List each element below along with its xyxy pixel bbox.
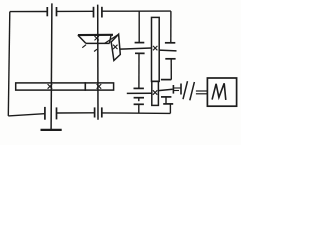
pedestal cap (right) [163,103,173,105]
motor M body [207,78,236,106]
bevel gear wheel on shaft II: top edge [78,34,113,36]
fixed-joint mark x on pinion Z4 [153,90,157,94]
coupling flange tick A [172,85,174,94]
fixed-joint mark x on gear Z1 [48,84,53,89]
bearing support post (upper left) [138,11,140,42]
bearing shaft IV right: top cap [161,79,171,81]
motor shaft stub to motor (upper line) [196,90,208,92]
horizontal shaft III, right stub [159,49,176,52]
spur gear Z1 on shaft I (large, side view bar) [16,83,86,90]
housing bottom line (left segment) [8,114,44,116]
coupling diagonal stroke 1 [183,81,188,99]
bearing shaft2 bottom right tick [101,107,103,117]
bearing shaft2 top right tick [101,7,103,18]
housing bottom line (right segment) [102,112,170,115]
housing left wall [8,12,10,116]
vertical shaft II (bevel gear shaft) [97,5,99,120]
housing bottom line (middle segment) [57,112,94,114]
pedestal post to housing bottom (left) [138,104,140,113]
bearing shaft IV left: top cap [134,87,144,89]
pitch cone dash mark (center) [94,49,97,51]
bearing shaft2 bottom left tick [94,107,96,117]
pedestal cap (left) [134,103,144,105]
bearing shaft1 bottom right tick [56,107,58,119]
coupling double line between flanges (upper) [173,87,181,89]
bearing support post (upper right, housing right wall) [170,11,172,43]
bearing shaft1 top right tick [56,7,58,16]
support between bearings (left column) [138,53,140,88]
support below right bearing [165,97,167,104]
bevel pinion meshing slant line [104,34,118,43]
horizontal shaft III (pinion shaft), left span [120,48,152,49]
bearing shaft1 top left tick [46,7,48,16]
motor shaft IV, left stub [127,92,152,94]
coupling double line between flanges (lower) [173,90,179,92]
support between bearings (right column) [170,59,172,80]
bevel gear wheel: bottom edge [86,42,110,44]
fixed-joint mark x on gear Z3 [153,46,157,50]
fixed-joint mark x on gear Z2 [97,84,102,89]
housing top line (left segment) [10,11,47,13]
bearing shaft IV right: bottom cap [161,96,171,98]
motor label M (hand-drawn italic) [212,83,226,100]
housing top line (middle segment) [57,10,94,12]
pitch cone dash mark (left) [82,45,86,48]
bearing shaft III right: top cap [165,42,175,44]
bearing shaft III left: top cap [135,42,145,44]
pinion Z4 on motor shaft (small bar) [152,81,159,105]
bevel pinion body on horizontal shaft [111,34,120,60]
pedestal post to housing bottom (right) [169,104,171,114]
motor shaft stub to motor (lower line) [196,93,208,95]
spur gear Z2 on shaft II (meshing bar) [85,83,113,90]
vertical shaft I (output, left) [50,3,53,129]
fixed-joint mark x on bevel pinion [113,45,117,49]
bearing shaft III right: bottom cap [165,58,175,60]
shaft I bottom end flange [41,129,62,131]
bevel gear wheel: right slant side [109,35,111,43]
motor shaft IV, right span [158,89,172,90]
pedestal stub below left bearing [138,98,140,102]
bevel gear wheel: left slant side [78,35,86,43]
bearing shaft IV left: bottom cap [134,97,144,99]
fixed-joint mark x on bevel wheel [95,36,99,40]
housing top line (right segment) [102,10,171,12]
bearing shaft2 top left tick [93,7,95,18]
coupling diagonal stroke 2 [190,82,195,100]
bearing shaft III left: bottom cap [135,52,145,54]
coupling flange tick B [180,84,182,95]
gear Z3 on shaft III (large, tall bar) [152,17,160,81]
bearing shaft1 bottom left tick [44,107,46,120]
